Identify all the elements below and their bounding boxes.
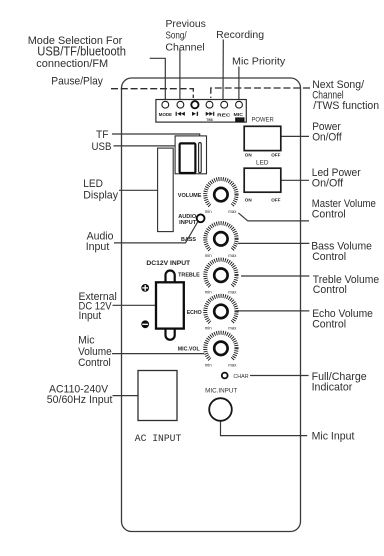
svg-text:On/Off: On/Off <box>312 178 344 190</box>
wire Bass Volume leader <box>238 242 309 244</box>
svg-text:Mic Input: Mic Input <box>312 430 355 442</box>
wire Full/Charge leader <box>250 375 309 377</box>
panel outline <box>122 78 301 532</box>
plus symbol <box>141 284 149 292</box>
wire Audio Input leader <box>114 222 198 243</box>
wire AC input leader <box>113 395 138 397</box>
button previous song <box>176 101 185 116</box>
svg-text:50/60Hz Input: 50/60Hz Input <box>47 394 113 406</box>
dc plug top tab <box>166 271 175 283</box>
svg-text:Mic Priority: Mic Priority <box>232 55 286 67</box>
button MIC PRI <box>234 101 245 122</box>
knob MIC.VOL <box>178 333 239 369</box>
svg-text:Input: Input <box>86 241 110 253</box>
wire Power On/Off leader <box>281 135 309 137</box>
wire Master Volume leader <box>238 213 309 221</box>
wire Next Song dashed leader <box>211 88 310 98</box>
svg-text:Input: Input <box>79 310 102 322</box>
knob ECHO <box>187 296 239 332</box>
wire Treble Volume leader <box>241 275 309 277</box>
button next song/TWS <box>206 101 215 122</box>
wire Mic Priority leader <box>238 67 240 101</box>
mic input jack <box>205 388 237 420</box>
svg-text:MIC.VOL: MIC.VOL <box>178 347 200 353</box>
wire Recording leader <box>222 40 224 101</box>
svg-text:max: max <box>228 326 237 331</box>
svg-text:Control: Control <box>313 284 347 296</box>
wire LED Display leader <box>119 189 158 191</box>
TF/USB slot group <box>175 136 206 174</box>
svg-text:Recording: Recording <box>216 29 264 41</box>
wire External DC12V leader <box>113 304 156 306</box>
svg-text:max: max <box>228 363 237 368</box>
wire Mode Selection leader <box>150 58 166 101</box>
DC 12V input group <box>141 260 190 340</box>
svg-text:CHAR: CHAR <box>233 374 248 380</box>
knob BASS <box>181 223 238 259</box>
svg-text:ON: ON <box>245 153 253 158</box>
svg-text:max: max <box>228 253 237 258</box>
svg-text:LED: LED <box>256 160 269 167</box>
svg-text:On/Off: On/Off <box>312 131 342 143</box>
svg-text:Control: Control <box>312 209 346 221</box>
svg-text:INPUT: INPUT <box>179 220 197 226</box>
svg-text:PRI: PRI <box>237 118 243 122</box>
svg-text:/TWS function: /TWS function <box>313 100 379 112</box>
charge indicator <box>222 373 249 380</box>
svg-text:MIC: MIC <box>234 112 244 117</box>
svg-text:MODE: MODE <box>159 112 172 117</box>
svg-text:min: min <box>205 363 213 368</box>
knob VOLUME <box>178 179 239 215</box>
button REC <box>217 101 231 117</box>
svg-text:POWER: POWER <box>252 117 275 124</box>
button MODE <box>159 101 172 117</box>
wire Pause/Play dashed leader <box>111 89 193 98</box>
svg-text:ECHO: ECHO <box>187 310 202 316</box>
switch POWER <box>244 117 281 158</box>
minus symbol <box>141 320 149 328</box>
wire Mic Input leader <box>221 421 308 436</box>
svg-text:min: min <box>205 253 213 258</box>
dc plug body <box>156 282 184 328</box>
svg-text:VOLUME: VOLUME <box>178 193 202 199</box>
svg-text:Control: Control <box>78 357 111 369</box>
LED display rectangle <box>158 148 174 232</box>
svg-text:OFF: OFF <box>271 153 280 158</box>
button play/pause <box>191 101 198 116</box>
svg-text:Display: Display <box>83 190 118 202</box>
wire Previous Song leader <box>179 50 181 101</box>
wire TF leader <box>112 134 200 137</box>
TF card slot <box>199 143 202 173</box>
svg-text:Previous: Previous <box>166 18 206 30</box>
knob TREBLE <box>178 260 238 296</box>
svg-text:USB: USB <box>92 141 112 153</box>
svg-text:min: min <box>205 209 213 214</box>
svg-text:USB/TF/bluetooth: USB/TF/bluetooth <box>37 44 126 58</box>
svg-text:MIC.INPUT: MIC.INPUT <box>205 388 237 394</box>
svg-text:Control: Control <box>312 319 346 331</box>
svg-text:Indicator: Indicator <box>312 381 353 393</box>
wire USB leader <box>114 145 180 147</box>
switch LED <box>244 160 281 203</box>
svg-text:max: max <box>228 289 237 294</box>
svg-text:LED: LED <box>83 178 103 190</box>
AC input socket <box>135 371 182 445</box>
USB connector <box>180 143 196 173</box>
svg-text:Song/: Song/ <box>166 30 187 42</box>
svg-text:DC12V INPUT: DC12V INPUT <box>146 260 190 267</box>
wire Echo Volume leader <box>238 310 309 312</box>
svg-text:Control: Control <box>312 251 346 263</box>
svg-text:AC INPUT: AC INPUT <box>135 433 182 445</box>
svg-text:BASS: BASS <box>181 237 196 243</box>
svg-text:Channel: Channel <box>165 41 204 53</box>
svg-text:ON: ON <box>245 197 253 202</box>
label Mode Selection <box>28 35 126 70</box>
svg-text:Pause/Play: Pause/Play <box>51 76 103 88</box>
svg-text:min: min <box>205 326 213 331</box>
wire Mic Volume leader <box>112 353 204 355</box>
svg-text:TF: TF <box>96 129 109 141</box>
svg-text:max: max <box>228 209 237 214</box>
svg-text:min: min <box>205 289 213 294</box>
svg-text:OFF: OFF <box>271 197 280 202</box>
svg-text:Mic: Mic <box>78 335 95 347</box>
svg-text:TREBLE: TREBLE <box>178 273 200 279</box>
svg-text:connection/FM: connection/FM <box>36 58 108 70</box>
buttons box <box>156 100 246 123</box>
svg-text:REC: REC <box>217 112 231 117</box>
svg-text:TWS: TWS <box>207 118 214 122</box>
dc plug bottom tab <box>166 329 175 340</box>
svg-text:AUDIO: AUDIO <box>178 214 197 220</box>
wire Led Power leader <box>281 179 309 181</box>
audio input jack <box>178 214 204 226</box>
